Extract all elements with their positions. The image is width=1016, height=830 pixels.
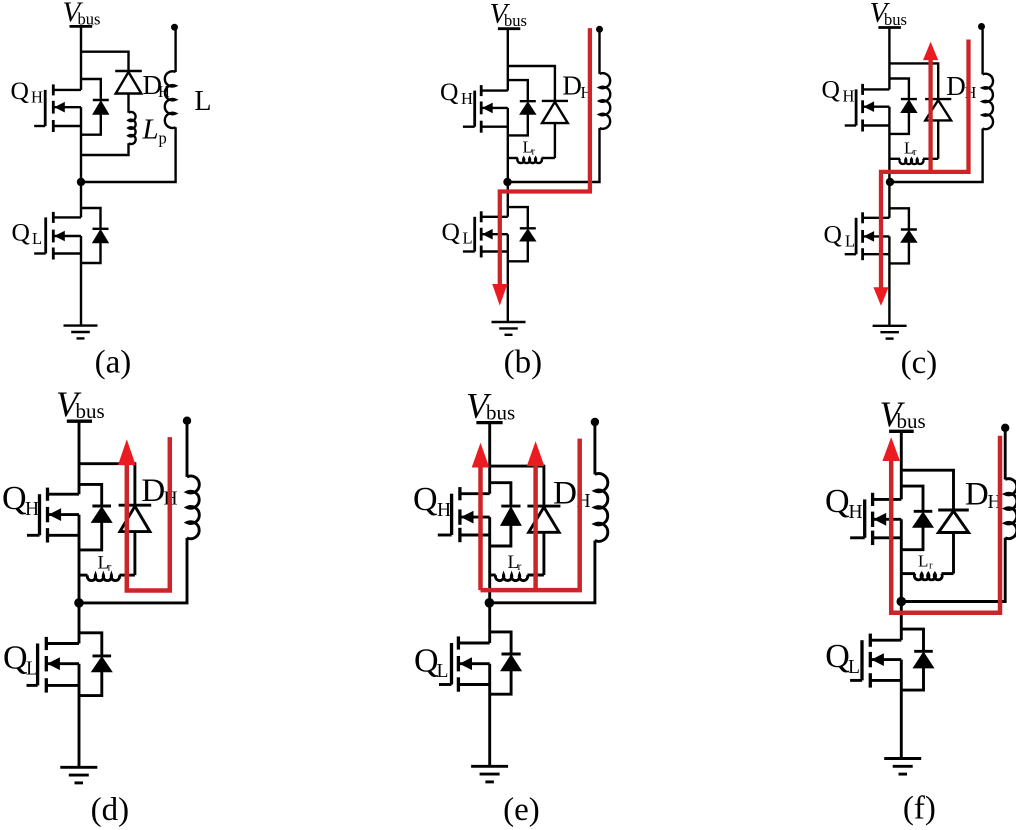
QL drain stub xyxy=(481,216,508,218)
output terminal node (a) xyxy=(171,24,178,31)
svg-text:r: r xyxy=(532,147,536,158)
QH source/body stub xyxy=(48,513,80,516)
svg-text:H: H xyxy=(437,500,451,521)
QH body arrow xyxy=(482,103,493,114)
diode DH (e) xyxy=(527,505,560,508)
wire QL body diode to source (c) xyxy=(889,242,909,263)
QH source/body stub xyxy=(481,107,508,109)
body diode of QL (d) xyxy=(93,654,112,657)
current arrow (c) pointing up above DH xyxy=(923,42,938,60)
wire QL body diode to source (f) xyxy=(901,668,923,690)
svg-text:D: D xyxy=(141,473,165,509)
QL source/body stub xyxy=(870,658,901,661)
wire QL body diode to source (b) xyxy=(508,241,528,261)
wire QH drain to DH branch top (d) xyxy=(79,464,135,506)
QH source stub xyxy=(863,124,890,126)
inductor L (e) xyxy=(595,474,608,542)
QL channel bar xyxy=(869,634,872,647)
QH gate bar xyxy=(44,90,47,126)
inductor L (d) xyxy=(187,476,199,539)
wire QL drain to body-diode branch (a) xyxy=(81,208,101,229)
QH source stub xyxy=(873,536,902,539)
svg-text:L: L xyxy=(437,661,449,682)
wire QL drain to body-diode branch (f) xyxy=(901,629,923,651)
QL gate lead xyxy=(34,252,46,254)
switch node junction (f) xyxy=(897,597,907,607)
wire Vbus rail to QH drain (a) xyxy=(80,26,82,90)
wire QH drain to body-diode branch top (e) xyxy=(490,483,511,506)
body diode of QH (f) xyxy=(914,510,933,513)
Vbus supply rail bar (b) xyxy=(498,27,520,30)
wire switch node to inductor L (d) xyxy=(79,538,187,603)
wire QH drain to body-diode branch top (c) xyxy=(889,79,909,100)
QL drain stub xyxy=(46,642,79,645)
Vbus supply rail bar (e) xyxy=(476,421,502,424)
QH body arrow xyxy=(461,511,474,524)
current arrow (c) pointing down at ground xyxy=(873,287,888,306)
current path (b): from output node down through QL to ground xyxy=(500,28,590,284)
inductor Lp (a) xyxy=(129,112,136,144)
QH gate lead xyxy=(34,125,45,127)
QL drain stub xyxy=(863,217,890,219)
wire QH drain to DH branch top (c) xyxy=(889,63,938,99)
QH gate bar xyxy=(38,494,41,535)
current path (d): U loop from inductor up through DH xyxy=(127,437,170,590)
QH source/body stub xyxy=(873,518,902,521)
svg-text:H: H xyxy=(25,499,39,520)
switch node junction (e) xyxy=(485,598,495,608)
diode DH (b) xyxy=(542,100,568,102)
QL gate bar xyxy=(855,218,858,254)
QL source/body stub xyxy=(46,662,79,665)
svg-text:Q: Q xyxy=(414,643,439,680)
QL body arrow xyxy=(864,231,875,242)
wire QH drain to DH branch top (f) xyxy=(901,470,953,510)
svg-text:D: D xyxy=(965,477,989,513)
Vbus supply rail bar (d) xyxy=(67,420,92,423)
svg-text:H: H xyxy=(849,502,863,523)
QH gate bar xyxy=(473,91,476,127)
output terminal node (f) xyxy=(1001,424,1009,432)
svg-text:r: r xyxy=(913,147,917,158)
body diode of QH (b) xyxy=(520,100,536,102)
svg-text:L: L xyxy=(845,232,855,251)
svg-text:Q: Q xyxy=(822,75,840,104)
svg-text:Q: Q xyxy=(825,638,850,675)
output terminal node (b) xyxy=(596,26,603,33)
QL gate lead xyxy=(463,250,475,252)
wire QH drain to body-diode branch top (b) xyxy=(508,80,528,101)
QL gate lead xyxy=(439,683,452,686)
QH gate lead xyxy=(463,125,475,127)
output terminal node (c) xyxy=(978,23,985,30)
wire QL drain to body-diode branch (c) xyxy=(889,208,909,229)
current arrow (e) above QH xyxy=(472,443,490,468)
diode DH (f) xyxy=(938,509,969,512)
svg-text:L: L xyxy=(848,657,860,678)
svg-text:Q: Q xyxy=(3,640,28,677)
switch node junction (d) xyxy=(74,598,84,608)
wire QL source to ground (c) xyxy=(888,236,890,325)
svg-text:L: L xyxy=(142,114,159,146)
wire QL source to ground (d) xyxy=(78,664,81,768)
QH gate bar xyxy=(450,494,453,535)
wire switch node to inductor L (a) xyxy=(81,127,176,182)
svg-text:Q: Q xyxy=(11,76,29,105)
QH gate lead xyxy=(438,534,452,537)
QH drain stub xyxy=(53,89,81,91)
QL source stub xyxy=(458,683,489,686)
current arrow (e) above DH xyxy=(527,441,545,466)
wire switch node to QL drain (c) xyxy=(888,182,890,218)
wire QH source to switch node (d) xyxy=(78,515,81,603)
wire QH drain to body-diode branch top (f) xyxy=(901,486,923,511)
wire DH to inductor Lp (a) xyxy=(127,94,129,113)
wire QL source to ground (b) xyxy=(507,234,509,322)
QL source stub xyxy=(481,250,508,252)
QH channel bar xyxy=(46,488,49,501)
svg-text:bus: bus xyxy=(504,11,527,30)
QL drain stub xyxy=(53,216,81,218)
wire QL drain to body-diode branch (d) xyxy=(79,633,102,656)
QH drain stub xyxy=(873,498,902,501)
svg-text:Q: Q xyxy=(12,218,30,247)
QL source stub xyxy=(863,253,890,255)
wire QH drain to body-diode branch top (d) xyxy=(79,484,102,506)
current path (e): from inductor branch down to switch node xyxy=(481,439,580,590)
QL channel bar xyxy=(45,637,48,650)
QH source stub xyxy=(481,125,508,127)
wire switch node to QL drain (a) xyxy=(80,182,82,217)
inductor Lr (f) xyxy=(901,572,915,575)
ground (f) xyxy=(884,757,921,760)
svg-text:L: L xyxy=(918,552,928,571)
inductor L (a) xyxy=(165,71,176,128)
wire QL body diode to source (a) xyxy=(81,243,101,263)
svg-text:Q: Q xyxy=(413,481,438,518)
svg-text:Q: Q xyxy=(440,77,458,106)
wire QL source to ground (f) xyxy=(900,660,903,759)
svg-text:r: r xyxy=(518,561,522,573)
current path (f): from inductor around to Vbus through QH xyxy=(891,436,1000,613)
wire Vbus rail to QH drain (c) xyxy=(888,28,890,90)
output terminal node (e) xyxy=(591,418,599,426)
current arrow (b) pointing down at ground xyxy=(492,284,507,306)
svg-text:H: H xyxy=(843,87,855,106)
svg-text:bus: bus xyxy=(486,401,515,425)
wire Vbus rail to QH drain (e) xyxy=(488,423,491,494)
wire body diode to source (a) xyxy=(81,114,101,135)
QL channel bar xyxy=(861,212,864,223)
wire DH cathode-leg down to Lr (f) xyxy=(952,533,955,574)
wire QL body diode to source (d) xyxy=(79,672,102,696)
wire switch node to QL drain (e) xyxy=(488,603,491,643)
body diode of QH (d) xyxy=(92,505,111,508)
inductor Lr (e) xyxy=(490,574,496,577)
wire switch node to QL drain (f) xyxy=(900,602,903,641)
wire QH source to switch node (e) xyxy=(488,517,491,603)
wire body diode to source (d) xyxy=(79,522,102,550)
wire QL drain to body-diode branch (b) xyxy=(508,207,528,228)
wire QH drain to body-diode branch top (a) xyxy=(81,79,101,100)
QH drain stub xyxy=(481,89,508,91)
Vbus supply rail bar (c) xyxy=(878,26,901,29)
wire Vbus rail to QH drain (f) xyxy=(900,431,903,499)
wire Vbus rail to QH drain (b) xyxy=(507,29,509,91)
wire body diode to source (e) xyxy=(490,525,511,546)
QL body arrow xyxy=(54,231,65,242)
wire QH source to switch node (c) xyxy=(888,107,890,182)
svg-text:(c): (c) xyxy=(901,345,938,381)
QL source/body stub xyxy=(53,235,81,237)
current path (e): up through DH xyxy=(533,465,538,590)
svg-text:D: D xyxy=(946,71,966,101)
QL source/body stub xyxy=(458,662,489,665)
svg-text:(d): (d) xyxy=(91,792,129,828)
QH gate lead xyxy=(845,124,856,126)
diode DH (c) xyxy=(925,98,951,100)
QL gate lead xyxy=(27,684,38,687)
wire DH cathode-leg down to Lr (e) xyxy=(542,532,545,575)
body diode of QH (c) xyxy=(901,98,917,100)
body diode of QL (f) xyxy=(914,650,933,653)
QL body arrow xyxy=(47,657,60,670)
svg-text:D: D xyxy=(562,71,582,101)
body diode of QL (b) xyxy=(520,227,536,229)
svg-text:L: L xyxy=(463,229,473,248)
wire Lp to QH source (a) xyxy=(81,143,129,155)
QL gate bar xyxy=(860,640,863,680)
QH drain stub xyxy=(48,493,80,496)
QL source stub xyxy=(53,252,81,254)
QL gate lead xyxy=(845,253,856,255)
wire body diode to source (b) xyxy=(508,114,528,135)
wire inductor L to output node (d) xyxy=(186,421,189,477)
QH gate lead xyxy=(27,534,40,537)
wire QL drain to body-diode branch (e) xyxy=(490,632,511,654)
QH gate bar xyxy=(855,89,858,125)
QL gate bar xyxy=(44,217,47,253)
svg-text:D: D xyxy=(553,475,577,511)
QL source stub xyxy=(46,684,79,687)
QL gate bar xyxy=(36,644,39,686)
body diode of QL (e) xyxy=(502,653,521,656)
diode DH (d) xyxy=(119,504,152,507)
QH body arrow xyxy=(49,508,62,521)
wire QH drain to DH branch top (a) xyxy=(81,52,129,71)
QH source/body stub xyxy=(863,105,890,107)
svg-text:r: r xyxy=(108,562,112,574)
wire inductor L to output node (c) xyxy=(981,27,983,75)
wire DH cathode-leg down to Lr (b) xyxy=(554,123,556,158)
body diode of QH (a) xyxy=(93,99,109,101)
svg-text:H: H xyxy=(31,88,43,107)
ground (a) xyxy=(64,324,98,326)
svg-text:(a): (a) xyxy=(95,345,132,381)
inductor L (c) xyxy=(983,74,993,129)
wire inductor L to output node (e) xyxy=(593,422,596,474)
QH body arrow xyxy=(54,102,65,113)
svg-text:Q: Q xyxy=(442,217,460,246)
wire switch node to QL drain (b) xyxy=(507,182,509,217)
QL drain stub xyxy=(458,642,489,645)
QH source stub xyxy=(53,125,81,127)
QH channel bar xyxy=(861,84,864,95)
QH body arrow xyxy=(864,101,875,112)
QH source/body stub xyxy=(53,106,81,108)
inductor Lr (b) xyxy=(508,157,518,159)
svg-text:bus: bus xyxy=(897,409,926,433)
inductor L (f) xyxy=(1005,479,1016,539)
QH gate lead xyxy=(850,536,865,539)
wire DH cathode-leg down to Lr (c) xyxy=(937,120,939,158)
QL body arrow xyxy=(871,653,884,666)
wire QH source to switch node (f) xyxy=(900,519,903,601)
QL channel bar xyxy=(480,211,483,222)
wire switch node to inductor L (e) xyxy=(490,541,595,603)
QL gate lead xyxy=(850,679,862,682)
current arrow (f) pointing up at Vbus xyxy=(882,437,900,461)
switch node junction (c) xyxy=(886,178,894,186)
wire Vbus rail to QH drain (d) xyxy=(78,421,81,494)
svg-text:L: L xyxy=(26,659,38,680)
svg-text:(b): (b) xyxy=(504,345,542,381)
current path (c): up through DH branch xyxy=(928,60,932,172)
QL channel bar xyxy=(52,212,55,223)
wire body diode to source (f) xyxy=(901,527,923,550)
svg-text:L: L xyxy=(194,86,211,117)
ground (d) xyxy=(60,766,97,769)
svg-text:p: p xyxy=(159,129,167,148)
svg-text:L: L xyxy=(32,229,42,248)
QH channel bar xyxy=(871,493,874,506)
inductor Lr (d) xyxy=(79,574,88,577)
QH source/body stub xyxy=(460,516,490,519)
QH drain stub xyxy=(460,492,490,495)
wire QL source to ground (a) xyxy=(80,236,82,326)
wire QH source to switch node (a) xyxy=(80,107,82,182)
wire QH drain to DH branch top (e) xyxy=(490,466,544,506)
switch node junction (b) xyxy=(503,178,511,186)
ground (e) xyxy=(471,765,508,768)
Vbus supply rail bar (a) xyxy=(70,25,93,28)
wire switch node to QL drain (d) xyxy=(78,603,81,644)
wire inductor L to output node (b) xyxy=(598,29,600,74)
QL drain stub xyxy=(870,639,901,642)
inductor L (b) xyxy=(600,73,611,129)
body diode of QL (a) xyxy=(93,228,109,230)
QH channel bar xyxy=(480,85,483,96)
body diode of QL (c) xyxy=(901,228,917,230)
wire DH cathode-leg down to Lr (d) xyxy=(133,532,136,576)
wire switch node to inductor L (b) xyxy=(508,128,600,182)
wire switch node to inductor L (c) xyxy=(889,129,982,183)
QH source stub xyxy=(48,534,80,537)
wire body diode to source (c) xyxy=(889,113,909,134)
output terminal node (d) xyxy=(183,417,191,425)
svg-text:H: H xyxy=(461,89,473,108)
wire QH drain to DH branch top (b) xyxy=(508,66,555,101)
QH gate bar xyxy=(863,499,866,537)
QH source stub xyxy=(460,534,490,537)
svg-text:Q: Q xyxy=(825,483,850,520)
wire QH source to switch node (b) xyxy=(507,108,509,182)
QH body arrow xyxy=(874,513,887,526)
QL gate bar xyxy=(473,217,476,252)
ground (c) xyxy=(873,325,907,327)
switch node junction (a) xyxy=(77,178,85,186)
wire QL source to ground (e) xyxy=(488,664,491,767)
diode DH (a) xyxy=(115,70,142,72)
QH drain stub xyxy=(863,88,890,90)
svg-text:(e): (e) xyxy=(503,792,540,828)
ground (b) xyxy=(492,321,526,323)
wire QL body diode to source (e) xyxy=(490,671,511,695)
QL source stub xyxy=(870,679,901,682)
wire inductor L to output node (f) xyxy=(1004,428,1007,480)
current arrow (d) pointing up above DH xyxy=(118,439,136,465)
wire inductor L to output node (a) xyxy=(174,27,176,72)
svg-text:Q: Q xyxy=(824,220,842,249)
QH channel bar xyxy=(458,487,461,500)
QH channel bar xyxy=(52,84,55,95)
inductor Lr (c) xyxy=(889,158,900,160)
svg-text:bus: bus xyxy=(76,399,105,423)
QL channel bar xyxy=(457,636,460,649)
QL body arrow xyxy=(459,657,472,670)
current path (e): up through QH channel xyxy=(478,467,483,591)
current path (c): down from output node xyxy=(881,40,969,289)
QL source/body stub xyxy=(863,235,890,237)
QL gate bar xyxy=(450,643,453,685)
body diode of QH (e) xyxy=(501,505,520,508)
svg-text:r: r xyxy=(929,560,933,571)
svg-text:(f): (f) xyxy=(903,791,936,827)
QL body arrow xyxy=(482,229,493,240)
QL source/body stub xyxy=(481,233,508,235)
Vbus supply rail bar (f) xyxy=(889,430,914,433)
svg-text:Q: Q xyxy=(2,480,27,517)
wire switch node to inductor L (f) xyxy=(901,538,1005,602)
